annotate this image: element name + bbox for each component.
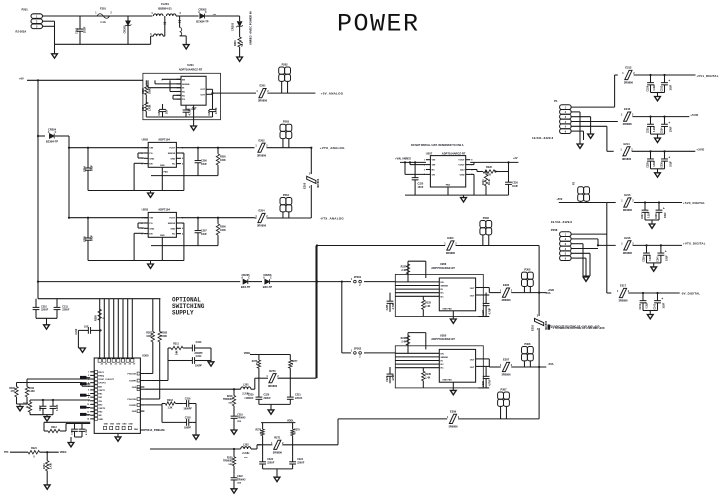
svg-text:VREG: VREG xyxy=(60,451,67,454)
svg-text:3R0806: 3R0806 xyxy=(258,99,268,103)
svg-text:P307: P307 xyxy=(500,387,507,391)
jumper JP301 xyxy=(354,280,357,283)
svg-text:R211: R211 xyxy=(23,404,29,406)
svg-text:2.4K: 2.4K xyxy=(401,269,406,272)
svg-text:GND: GND xyxy=(132,387,137,389)
cluster R212 caps xyxy=(44,421,90,423)
resistor R205 xyxy=(217,148,219,154)
svg-text:B82804-S1: B82804-S1 xyxy=(158,7,172,11)
svg-text:VOUT: VOUT xyxy=(169,218,176,220)
svg-text:11: 11 xyxy=(87,408,89,410)
row E214 xyxy=(623,147,630,156)
svg-text:* 1 TO INDICATE ROUTING OF +5V: * 1 TO INDICATE ROUTING OF +5VD AND +3VD xyxy=(551,327,605,330)
svg-text:E214: E214 xyxy=(623,142,630,146)
svg-text:100K: 100K xyxy=(161,335,167,338)
svg-text:VIN: VIN xyxy=(432,165,436,167)
jumper JP302 xyxy=(354,352,357,355)
svg-text:R308: R308 xyxy=(161,332,167,335)
svg-text:3R0806: 3R0806 xyxy=(316,178,320,188)
wire riser to bottom net xyxy=(337,419,339,445)
svg-text:+: + xyxy=(665,250,667,254)
svg-text:C313: C313 xyxy=(196,341,202,344)
U202 PAD stub xyxy=(161,167,163,190)
svg-text:0.1UF: 0.1UF xyxy=(650,254,652,261)
svg-text:E309: E309 xyxy=(450,410,457,414)
zener CR201 xyxy=(127,16,129,21)
svg-text:3R0806: 3R0806 xyxy=(623,251,633,255)
svg-text:P204: P204 xyxy=(283,193,290,197)
U203 PAD stub xyxy=(161,237,163,260)
svg-text:PAD: PAD xyxy=(134,428,139,431)
svg-text:1.4K: 1.4K xyxy=(425,305,430,308)
svg-text:R218: R218 xyxy=(227,396,233,398)
capacitor C221 xyxy=(289,392,291,397)
U207 GND wire xyxy=(470,173,474,175)
svg-text:0.1UF: 0.1UF xyxy=(57,404,59,411)
svg-text:E201: E201 xyxy=(259,84,266,88)
wire to U202 xyxy=(69,147,148,149)
svg-text:4.7UF: 4.7UF xyxy=(392,374,395,381)
resistors R309 R310 xyxy=(82,385,90,387)
svg-text:GND PAD: GND PAD xyxy=(442,307,452,310)
svg-text:1.1A: 1.1A xyxy=(100,20,106,24)
ground xyxy=(80,348,86,352)
ground below U300 xyxy=(117,433,119,437)
svg-text:R201: R201 xyxy=(234,40,237,46)
svg-text:CR203: CR203 xyxy=(231,22,235,31)
svg-text:E202: E202 xyxy=(258,138,265,142)
wire +9V to U201 xyxy=(27,79,143,81)
svg-text:R209: R209 xyxy=(95,315,98,321)
svg-text:L202: L202 xyxy=(243,443,249,446)
svg-text:+: + xyxy=(668,79,670,83)
svg-text:C242: C242 xyxy=(653,303,656,309)
svg-text:+VTX_DIGITAL: +VTX_DIGITAL xyxy=(683,242,706,246)
svg-text:R307: R307 xyxy=(146,332,152,335)
svg-text:24K: 24K xyxy=(176,350,179,355)
wire SW2 to L202 xyxy=(150,448,241,450)
svg-text:SENSE: SENSE xyxy=(441,357,449,359)
svg-text:C202: C202 xyxy=(158,109,161,115)
regulator U206 block xyxy=(395,274,483,316)
svg-text:VSET2: VSET2 xyxy=(98,408,105,410)
svg-text:10UF: 10UF xyxy=(665,212,667,218)
U300 top pin wires xyxy=(99,299,101,358)
U300 left pin tags xyxy=(80,376,87,379)
capacitor C212 xyxy=(78,329,88,331)
connector P303 xyxy=(480,221,486,228)
svg-text:3R0806: 3R0806 xyxy=(624,81,634,85)
svg-text:POWER: POWER xyxy=(337,10,420,39)
svg-text:3R0806: 3R0806 xyxy=(446,251,456,255)
U203 bottom rail xyxy=(88,260,184,262)
cluster R211 C317 xyxy=(30,399,90,401)
svg-text:1.3K: 1.3K xyxy=(167,406,172,409)
svg-text:PGOOD2: PGOOD2 xyxy=(127,399,137,401)
svg-text:R279: R279 xyxy=(294,430,300,432)
svg-text:R223: R223 xyxy=(483,179,485,185)
U207 output wire xyxy=(470,161,518,163)
svg-text:C222: C222 xyxy=(237,476,243,478)
svg-text:COMP1: COMP1 xyxy=(129,380,137,382)
svg-text:R309: R309 xyxy=(9,388,15,390)
svg-text:OUT: OUT xyxy=(470,367,475,369)
svg-text:+9V: +9V xyxy=(19,76,24,80)
svg-text:+5V0: +5V0 xyxy=(556,198,563,201)
ground xyxy=(231,430,237,434)
svg-text:BZX-TP: BZX-TP xyxy=(263,285,273,289)
svg-text:100K: 100K xyxy=(220,229,226,232)
svg-text:10UF: 10UF xyxy=(201,163,207,166)
svg-text:NC: NC xyxy=(441,296,445,298)
capacitor C205b xyxy=(87,218,89,238)
svg-text:SENSE: SENSE xyxy=(168,153,176,155)
svg-text:10UF: 10UF xyxy=(670,161,672,167)
resistor R202 xyxy=(145,85,148,94)
svg-text:3R0806: 3R0806 xyxy=(501,298,511,302)
svg-text:10UF: 10UF xyxy=(667,255,669,261)
ground U202 xyxy=(150,191,152,194)
ferrite bead E310 xyxy=(535,318,544,325)
svg-text:U202: U202 xyxy=(142,137,149,141)
svg-text:U300: U300 xyxy=(142,353,149,357)
svg-text:+2V: +2V xyxy=(513,157,518,160)
svg-text:NC: NC xyxy=(182,95,186,97)
U207 bottom rail xyxy=(405,194,509,196)
resistor R220 column xyxy=(233,448,235,450)
svg-text:NC: NC xyxy=(182,92,186,94)
svg-text:10: 10 xyxy=(87,404,89,406)
svg-text:TR0643: TR0643 xyxy=(237,478,246,481)
svg-text:10UF: 10UF xyxy=(670,84,672,90)
svg-text:C237: C237 xyxy=(642,213,644,219)
ferrite bead E204 xyxy=(258,213,265,222)
svg-text:TR06060: TR06060 xyxy=(223,461,233,463)
svg-text:PG: PG xyxy=(149,223,152,225)
ground xyxy=(44,485,50,489)
svg-text:6: 6 xyxy=(88,390,89,392)
capacitor C201 xyxy=(79,16,81,29)
capacitor C223 xyxy=(262,457,264,462)
U203 EN wire xyxy=(134,232,144,234)
svg-text:E205: E205 xyxy=(303,182,307,189)
ground xyxy=(231,489,237,493)
wire bottom net to E309 xyxy=(338,418,447,420)
inductor L201 xyxy=(241,387,251,389)
diode CR206 xyxy=(265,279,270,284)
row E212 xyxy=(625,70,632,79)
wire box bottom bus xyxy=(146,116,212,118)
svg-text:OUT: OUT xyxy=(200,89,205,91)
connector P202 xyxy=(279,67,285,74)
svg-text:CR204: CR204 xyxy=(48,127,57,131)
svg-text:EN: EN xyxy=(441,353,444,355)
svg-text:P201: P201 xyxy=(22,8,29,12)
svg-text:E204: E204 xyxy=(258,209,265,213)
svg-text:GND: GND xyxy=(149,158,154,160)
svg-text:ADP5014_PRELIM: ADP5014_PRELIM xyxy=(140,428,165,432)
svg-text:VDDL: VDDL xyxy=(244,352,251,355)
svg-text:12: 12 xyxy=(87,411,89,413)
svg-text:100PF: 100PF xyxy=(195,364,203,367)
resistor R223 xyxy=(485,172,487,175)
wire rail x317 xyxy=(316,246,318,379)
svg-text:VOUT: VOUT xyxy=(458,165,465,167)
svg-text:ADP7504ARGZ-R7: ADP7504ARGZ-R7 xyxy=(431,266,455,270)
resistor R204 xyxy=(145,102,148,111)
svg-text:GND: GND xyxy=(104,424,109,426)
svg-text:VIN: VIN xyxy=(149,218,153,220)
svg-text:C218: C218 xyxy=(185,417,191,420)
svg-text:E216: E216 xyxy=(624,236,631,240)
svg-text:10UF: 10UF xyxy=(91,235,94,241)
svg-text:+: + xyxy=(668,155,670,159)
svg-text:+5V_ANALOG: +5V_ANALOG xyxy=(321,91,344,95)
svg-text:NC: NC xyxy=(172,164,176,166)
svg-text:E306: E306 xyxy=(503,283,510,287)
inductor L202 xyxy=(241,447,251,449)
svg-text:ADP7104: ADP7104 xyxy=(158,137,170,141)
svg-text:56.2: 56.2 xyxy=(241,41,244,46)
svg-text:1.43K: 1.43K xyxy=(50,463,53,469)
ADJ divider R226 R223 C226 xyxy=(470,169,477,171)
svg-text:C238: C238 xyxy=(656,213,658,219)
svg-text:C205: C205 xyxy=(84,236,87,242)
ground xyxy=(270,404,272,410)
svg-text:U207: U207 xyxy=(426,151,433,155)
svg-text:ADP7504ARGZ-R7: ADP7504ARGZ-R7 xyxy=(431,337,455,341)
wire corner down xyxy=(239,16,241,21)
svg-text:C225: C225 xyxy=(386,304,389,310)
svg-text:BZX-TP: BZX-TP xyxy=(241,285,251,289)
wire C210 C211 join xyxy=(36,317,57,319)
diode CR202 xyxy=(200,14,205,19)
wire main 9V rail xyxy=(38,281,240,283)
ferrite bead R270 xyxy=(269,374,276,383)
comp1 network R311 C313 C314 xyxy=(144,380,168,382)
svg-text:+5V0_DIGITAL: +5V0_DIGITAL xyxy=(683,201,705,205)
capacitor C220 xyxy=(258,392,260,397)
connector P1 xyxy=(560,105,572,110)
svg-text:L201: L201 xyxy=(243,384,249,387)
svg-text:4.7UF: 4.7UF xyxy=(85,428,88,435)
svg-text:220UF: 220UF xyxy=(264,397,272,400)
svg-text:FREQ: FREQ xyxy=(98,375,104,377)
svg-text:F201: F201 xyxy=(100,7,106,11)
wire pins 2-3 to return xyxy=(43,20,55,22)
svg-text:R277: R277 xyxy=(292,361,298,363)
svg-text:OUT: OUT xyxy=(470,359,475,361)
svg-text:UNREG +9VDC POWER IN: UNREG +9VDC POWER IN xyxy=(249,11,253,45)
svg-text:PAD: PAD xyxy=(164,171,169,174)
svg-text:7: 7 xyxy=(88,393,89,395)
svg-text:VSET1: VSET1 xyxy=(98,390,105,392)
svg-text:1.43K: 1.43K xyxy=(29,390,35,393)
capacitor C205 xyxy=(212,104,214,109)
wire +5V0 xyxy=(559,202,607,204)
U207 PAD stub xyxy=(447,187,449,195)
svg-text:NC: NC xyxy=(432,170,436,172)
svg-text:R221: R221 xyxy=(31,447,37,450)
svg-text:GND: GND xyxy=(122,424,127,426)
svg-text:C241: C241 xyxy=(639,303,642,309)
ferrite bead E309 xyxy=(449,414,456,423)
svg-text:1800PF: 1800PF xyxy=(183,408,192,411)
svg-text:10UF: 10UF xyxy=(201,233,207,236)
ground xyxy=(463,195,465,198)
svg-text:4.7UF: 4.7UF xyxy=(392,302,395,309)
svg-text:19.531..3429.6: 19.531..3429.6 xyxy=(551,220,573,224)
svg-text:E310: E310 xyxy=(531,324,535,331)
svg-text:GND PAD: GND PAD xyxy=(186,108,196,111)
ground xyxy=(276,469,278,477)
svg-text:PAD: PAD xyxy=(160,234,165,237)
ferrite bead E205 xyxy=(310,148,312,174)
svg-text:0.1UF: 0.1UF xyxy=(654,160,656,167)
svg-text:EN: EN xyxy=(149,234,152,236)
svg-text:E217: E217 xyxy=(620,284,627,288)
wire rail to P208 rows xyxy=(606,203,608,294)
U202 bottom rail xyxy=(88,190,184,192)
svg-text:OUT: OUT xyxy=(200,95,205,97)
svg-text:E307: E307 xyxy=(503,358,510,362)
svg-text:NC: NC xyxy=(172,234,176,236)
svg-text:ADP7104: ADP7104 xyxy=(158,207,170,211)
wire JP302 feed xyxy=(342,352,351,354)
svg-text:SUPPLY: SUPPLY xyxy=(172,310,194,317)
svg-text:P202: P202 xyxy=(282,62,289,66)
svg-text:8: 8 xyxy=(88,397,89,399)
svg-text:4.7UF: 4.7UF xyxy=(215,107,218,114)
svg-text:VIN: VIN xyxy=(149,148,153,150)
svg-text:R311: R311 xyxy=(173,343,179,346)
ground xyxy=(195,422,197,435)
svg-text:2.2UH: 2.2UH xyxy=(242,452,249,455)
svg-text:E215: E215 xyxy=(624,193,631,197)
svg-text:3R0806: 3R0806 xyxy=(623,208,633,212)
row E216 xyxy=(598,244,616,246)
net +VTX_ANALOG xyxy=(310,147,312,149)
U300 right pins xyxy=(140,373,144,375)
ferrite bead R271 xyxy=(274,440,281,449)
svg-text:C228: C228 xyxy=(482,381,485,387)
row E215 xyxy=(607,202,616,204)
svg-text:PAD: PAD xyxy=(446,184,451,187)
U203 SENSE loop xyxy=(181,222,184,224)
svg-text:PAD: PAD xyxy=(160,164,165,167)
svg-text:4.7UF: 4.7UF xyxy=(489,307,492,314)
svg-text:FL201: FL201 xyxy=(161,2,169,6)
ground xyxy=(19,404,21,407)
svg-text:GND: GND xyxy=(170,228,175,230)
svg-text:GND: GND xyxy=(110,424,115,426)
capacitor C224 xyxy=(292,457,294,462)
svg-text:3R0806: 3R0806 xyxy=(501,373,511,377)
U203 output wire xyxy=(181,217,255,219)
svg-text:ON: ON xyxy=(432,174,436,176)
svg-text:0.1UF: 0.1UF xyxy=(654,125,656,132)
capacitor C210 xyxy=(35,299,37,308)
capacitor C202 xyxy=(162,104,164,109)
svg-text:E212: E212 xyxy=(625,66,632,70)
U202 output wire xyxy=(181,147,255,149)
svg-text:C212: C212 xyxy=(75,328,78,334)
svg-text:0.1UF: 0.1UF xyxy=(647,302,649,309)
svg-text:C239: C239 xyxy=(643,256,645,262)
svg-text:C229: C229 xyxy=(386,375,389,381)
svg-text:GND: GND xyxy=(149,228,154,230)
svg-text:C204: C204 xyxy=(84,166,87,172)
svg-text:R213: R213 xyxy=(167,399,173,402)
svg-text:R226: R226 xyxy=(486,166,492,169)
svg-text:CPOFG: CPOFG xyxy=(98,383,106,385)
svg-text:PG: PG xyxy=(149,153,152,155)
svg-text:3R0806: 3R0806 xyxy=(273,450,283,454)
wire right rail xyxy=(538,246,540,317)
resistor R308 xyxy=(159,299,161,332)
capacitor C225 input xyxy=(414,162,416,177)
svg-text:U203: U203 xyxy=(142,207,149,211)
capacitor C207 xyxy=(197,218,199,231)
svg-text:R204: R204 xyxy=(142,105,145,111)
svg-text:C219: C219 xyxy=(237,414,243,416)
svg-text:EN: EN xyxy=(182,79,185,81)
svg-text:C236: C236 xyxy=(661,162,663,168)
svg-text:P1: P1 xyxy=(554,99,558,103)
svg-text:220UF: 220UF xyxy=(297,462,305,465)
svg-text:C216: C216 xyxy=(185,398,191,401)
svg-text:+: + xyxy=(663,207,665,211)
ground xyxy=(54,44,56,54)
svg-text:3R0806: 3R0806 xyxy=(448,425,458,429)
capacitor C206 xyxy=(197,148,199,161)
U202 EN wire xyxy=(134,162,144,164)
regulator U205 block xyxy=(395,346,483,388)
U207 input wire xyxy=(400,161,426,163)
ground xyxy=(237,57,243,61)
diode CR204 xyxy=(37,135,39,137)
wire to CR202 xyxy=(181,15,199,17)
svg-text:VOUT: VOUT xyxy=(169,148,176,150)
svg-text:2: 2 xyxy=(88,375,89,377)
svg-text:C227: C227 xyxy=(482,309,485,315)
zener CR203 xyxy=(237,22,242,27)
svg-text:SENSE: SENSE xyxy=(182,84,190,86)
diode CR205 xyxy=(243,279,248,284)
connector P203 xyxy=(280,124,286,131)
svg-text:C233: C233 xyxy=(647,127,649,133)
wire switcher bus xyxy=(38,298,160,300)
U300 left pins xyxy=(90,371,94,373)
svg-text:R271: R271 xyxy=(274,435,281,439)
svg-text:GND: GND xyxy=(98,419,103,421)
svg-text:-5VA: -5VA xyxy=(548,362,554,366)
svg-text:ADP7104ARGZ-R7: ADP7104ARGZ-R7 xyxy=(179,68,203,72)
svg-text:SYNC_CLKOUT: SYNC_CLKOUT xyxy=(98,379,114,381)
svg-text:VIN: VIN xyxy=(98,401,102,403)
ground xyxy=(583,277,589,281)
svg-text:C234: C234 xyxy=(660,127,663,133)
svg-text:1K: 1K xyxy=(26,407,29,409)
svg-text:4.7UF: 4.7UF xyxy=(489,379,492,386)
svg-text:1.43K: 1.43K xyxy=(149,104,152,111)
svg-text:C232: C232 xyxy=(661,85,663,91)
svg-text:GND: GND xyxy=(128,424,133,426)
svg-text:SENSE: SENSE xyxy=(441,286,449,288)
svg-text:2.4K: 2.4K xyxy=(401,340,406,343)
svg-text:10UF: 10UF xyxy=(91,165,94,171)
svg-text:TP3: TP3 xyxy=(4,451,9,454)
